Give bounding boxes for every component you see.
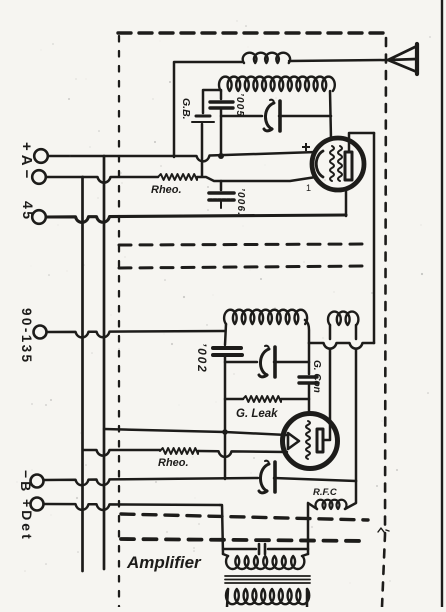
svg-text:Rheo.: Rheo.	[158, 457, 189, 469]
capacitor G.Con	[299, 377, 318, 383]
svg-text:Amplifier: Amplifier	[126, 553, 202, 572]
svg-text:’002: ’002	[195, 343, 209, 374]
tube V1 filament	[316, 151, 323, 177]
wire cap lead	[220, 181, 223, 190]
dashed divider box2 top	[119, 266, 368, 268]
node junction dot A-wire	[218, 153, 224, 159]
tube V2 filament	[288, 433, 299, 449]
resistor Rheo1	[158, 174, 197, 180]
capacitor C3 .0005 bypass	[209, 193, 234, 200]
wire tickler right leg lower	[355, 349, 358, 481]
svg-text:+Det: +Det	[19, 499, 35, 542]
wire tuning cap right	[279, 115, 331, 118]
wire tube bottom lead	[345, 189, 348, 216]
wire plate lead	[323, 439, 330, 442]
coil L2 secondary	[219, 77, 335, 91]
tube V2 plate	[317, 429, 323, 452]
resistor G.Leak	[243, 396, 281, 402]
wire rheo2 to tube	[198, 451, 287, 457]
terminal 90-135	[34, 326, 47, 339]
capacitor C4 .002	[213, 348, 242, 355]
dashed divider box2 bottom	[121, 514, 368, 520]
svg-text:G.B.: G.B.	[180, 98, 192, 120]
wire filament top	[104, 429, 287, 435]
page edge line	[441, 0, 443, 607]
capacitor C7 bypass	[259, 544, 265, 554]
wire throttle to junction	[274, 478, 356, 481]
svg-text:+A−: +A−	[18, 142, 35, 182]
antenna	[388, 44, 417, 74]
svg-text:−B: −B	[18, 470, 34, 494]
wire -A filament rheostat	[46, 176, 83, 179]
capacitor C5 variable tuning	[260, 349, 269, 375]
wire plate top lead	[349, 133, 374, 151]
tube V1 envelope	[312, 138, 364, 190]
wire +A filament	[48, 152, 316, 161]
wire G.B. top lead	[203, 90, 221, 113]
wire G.Con vertical upper	[308, 343, 311, 374]
wire primary legs	[223, 554, 308, 556]
dashed border left	[118, 36, 120, 607]
capacitor C1 .0005	[210, 102, 233, 108]
wire G.Leak right lead	[281, 398, 309, 401]
svg-text:’005: ’005	[234, 93, 245, 117]
wire tickler right leg	[355, 325, 358, 339]
transformer T1 secondary	[226, 589, 309, 604]
coil RFC	[316, 500, 347, 509]
svg-text:90-135: 90-135	[19, 308, 34, 364]
mark artifact	[378, 528, 389, 532]
wire bypass cap	[223, 548, 308, 551]
resistor Rheo2	[160, 448, 198, 454]
wire tuning cap left	[221, 115, 262, 118]
svg-text:1: 1	[306, 183, 311, 193]
wire tuned circuit left vertical	[225, 324, 226, 479]
wire coil L3 right leg	[305, 320, 309, 343]
tube V2 grid	[306, 421, 310, 459]
svg-text:’006.: ’006.	[235, 188, 246, 216]
terminal +A	[34, 149, 48, 163]
coil L3 tuned secondary	[224, 310, 307, 324]
wire secondary legs	[227, 589, 307, 607]
wire 90-135 B+	[47, 331, 225, 337]
wire grid lead tube V1	[330, 91, 331, 139]
coil L4 tickler	[328, 312, 358, 325]
terminal +Det	[31, 498, 44, 511]
wire tickler left leg	[329, 325, 332, 339]
wire G.Leak left lead	[225, 398, 243, 401]
wire coil left leg	[220, 91, 223, 99]
wire plate coupling horizontal	[309, 343, 374, 349]
wire RFC left lead	[308, 503, 317, 554]
wire bus +A vertical	[103, 156, 106, 569]
wire grid condenser vertical	[220, 110, 223, 155]
capacitor C2 variable tuning	[265, 103, 274, 129]
svg-text:Rheo.: Rheo.	[151, 184, 182, 196]
tube V2 envelope	[283, 414, 338, 469]
wire 45V plate supply	[46, 215, 346, 222]
svg-text:R.F.C: R.F.C	[313, 487, 337, 498]
terminal -A	[32, 170, 46, 184]
wire tuning cap 2 right	[274, 361, 309, 364]
dashed border box top	[118, 31, 388, 34]
capacitor C6 variable throttle	[260, 464, 269, 491]
wire rheostat 2	[83, 450, 160, 456]
tube V1 plate	[345, 152, 352, 180]
wire antenna lead	[289, 60, 388, 61]
label + tube V1	[302, 143, 310, 151]
transformer T1 primary	[226, 556, 304, 569]
wire rheo to tube	[197, 177, 316, 181]
wire G.B. bottom lead	[201, 124, 204, 176]
wire +Det	[44, 504, 220, 510]
wire plate feed vertical right	[373, 133, 376, 343]
wire tickler left leg lower	[329, 349, 332, 439]
wire bus A- vertical	[81, 177, 84, 571]
dashed divider box1 bottom	[119, 244, 368, 245]
coil L1 antenna coupler	[243, 53, 290, 63]
battery G.B.	[196, 115, 210, 118]
wire to transformer primary	[220, 505, 223, 554]
wire cap stub	[220, 202, 222, 208]
wire top left	[174, 62, 243, 157]
wire RFC right lead	[345, 481, 356, 509]
transformer T1 core	[225, 576, 310, 583]
svg-text:45: 45	[20, 201, 36, 222]
dashed border right	[382, 38, 386, 607]
wire G.Con vertical lower	[308, 385, 311, 414]
wire -B	[44, 478, 258, 485]
tube V1 grid	[330, 146, 334, 181]
svg-text:G. Leak: G. Leak	[236, 408, 278, 420]
terminal 45	[32, 210, 46, 224]
svg-text:G. Con: G. Con	[311, 360, 322, 393]
dashed border amplifier box top	[121, 539, 368, 541]
wire tuning cap 2 left	[225, 361, 257, 364]
terminal -B	[31, 475, 44, 488]
node junction filament	[222, 429, 228, 435]
